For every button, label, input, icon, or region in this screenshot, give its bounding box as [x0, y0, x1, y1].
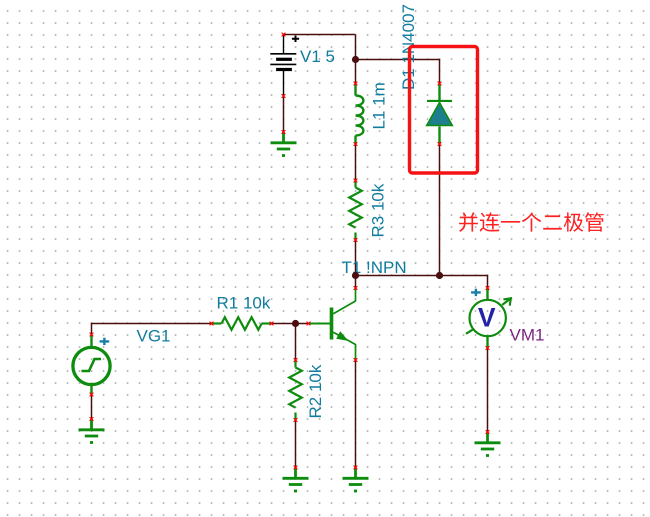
svg-text:V1 5: V1 5 [300, 47, 335, 66]
pin ground VG1 [90, 417, 94, 421]
wire L1 to R3 [355, 144, 357, 181]
pin ground VM1 [486, 430, 490, 434]
pin R2 bottom [294, 418, 298, 422]
svg-text:R2 10k: R2 10k [306, 364, 325, 418]
pin T1 emitter [354, 358, 358, 362]
wire VM1 bottom to ground [487, 348, 489, 432]
wire R2 to ground [295, 420, 297, 468]
plus VM1 [471, 289, 481, 296]
ground below V1 [271, 132, 297, 156]
pin ground R2 [294, 466, 298, 470]
svg-text:R3 10k: R3 10k [369, 183, 388, 237]
pin battery bottom [282, 94, 286, 98]
resistor R3 [349, 181, 362, 241]
pin L1 bottom [354, 142, 358, 146]
red highlight box [410, 47, 478, 174]
battery V1 [270, 35, 299, 97]
pin R1 left [210, 322, 214, 326]
wire base node to R2 [295, 324, 297, 361]
pin VM1 top [486, 286, 490, 290]
ground below VG1 [79, 419, 105, 443]
wire collector bus to VM1 [356, 276, 488, 289]
pin R3 bottom [354, 238, 358, 242]
svg-text:V: V [478, 303, 496, 333]
plus VG1 [100, 338, 110, 345]
junction collector node [352, 272, 359, 279]
junction base node [292, 320, 299, 327]
resistor R2 [289, 360, 302, 420]
diode D1 [427, 84, 453, 145]
annotation chinese text [459, 212, 604, 232]
pin D1 bottom [438, 142, 442, 146]
wire R1 to base node [272, 323, 309, 325]
wire junction down to L1 [355, 60, 357, 84]
wire VG1 to R1 [92, 324, 212, 335]
pin R1 right [270, 322, 274, 326]
svg-text:VG1: VG1 [137, 327, 171, 346]
pin battery top [282, 33, 286, 37]
ground below VM1 [475, 432, 501, 456]
transistor T1 [309, 288, 356, 360]
inductor L1 [356, 84, 364, 145]
pin T1 collector [354, 286, 358, 290]
pin D1 top [438, 82, 442, 86]
pin R3 top [354, 179, 358, 183]
wire junction to diode branch corner [356, 60, 440, 84]
wire battery top to node A [284, 34, 356, 36]
pin VG1 bottom [90, 393, 94, 397]
pin ground emitter [354, 466, 358, 470]
voltmeter VM1 [466, 288, 511, 348]
junction node A [352, 56, 359, 63]
pin T1 base [307, 322, 311, 326]
wire emitter to ground [355, 360, 357, 468]
junction diode bus node [436, 272, 443, 279]
pin VM1 bottom [486, 346, 490, 350]
wire VG1 bottom to ground [91, 395, 93, 420]
svg-text:L1 1m: L1 1m [370, 82, 389, 129]
wire D1 bottom to collector bus [439, 144, 441, 276]
svg-text:R1 10k: R1 10k [217, 294, 271, 313]
wire battery bottom to ground [283, 96, 285, 132]
resistor R1 [212, 317, 272, 330]
svg-text:T1 !NPN: T1 !NPN [342, 258, 407, 277]
pin VG1 top [90, 333, 94, 337]
ground below emitter [343, 468, 369, 492]
source VG1 [73, 335, 110, 395]
wire R3 to collector node [355, 240, 357, 288]
pin R2 top [294, 358, 298, 362]
pin ground V1 [282, 130, 286, 134]
pin L1 top [354, 82, 358, 86]
wire node A down to junction [355, 35, 357, 60]
svg-text:VM1: VM1 [510, 326, 545, 345]
ground below R2 [283, 468, 309, 492]
